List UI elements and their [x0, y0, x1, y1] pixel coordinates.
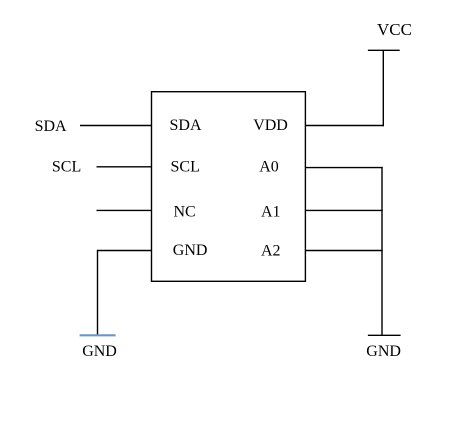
- svg-text:VDD: VDD: [253, 117, 288, 134]
- wire SDA to pin 1: [80, 125, 152, 127]
- svg-text:SCL: SCL: [52, 159, 81, 176]
- svg-text:NC: NC: [174, 203, 196, 220]
- svg-text:VCC: VCC: [377, 20, 412, 39]
- wire right bus vertical to ground: [381, 167, 383, 335]
- svg-text:A0: A0: [259, 158, 279, 175]
- svg-text:SDA: SDA: [35, 118, 67, 135]
- wire A1 pin 6: [306, 209, 383, 211]
- ground symbol right (bar): [368, 334, 401, 336]
- svg-text:A1: A1: [261, 203, 281, 220]
- wire VDD pin 8: [306, 125, 385, 127]
- power rail VCC bar: [368, 49, 400, 51]
- wire A0 pin 7: [306, 167, 383, 169]
- svg-text:SCL: SCL: [171, 159, 200, 176]
- IC U1 body: [152, 92, 306, 282]
- svg-text:GND: GND: [173, 242, 208, 259]
- svg-text:GND: GND: [366, 343, 401, 360]
- wire GND pin 4 horizontal: [98, 250, 152, 252]
- svg-text:SDA: SDA: [170, 117, 202, 134]
- svg-text:GND: GND: [82, 343, 117, 360]
- wire VCC vertical: [382, 50, 384, 126]
- wire SCL to pin 2: [97, 166, 152, 168]
- svg-text:A2: A2: [261, 243, 281, 260]
- wire A2 pin 5: [306, 250, 383, 252]
- ground symbol left (blue bar): [80, 334, 116, 336]
- wire NC stub pin 3: [97, 209, 152, 211]
- wire GND pin 4 vertical drop: [97, 250, 99, 335]
